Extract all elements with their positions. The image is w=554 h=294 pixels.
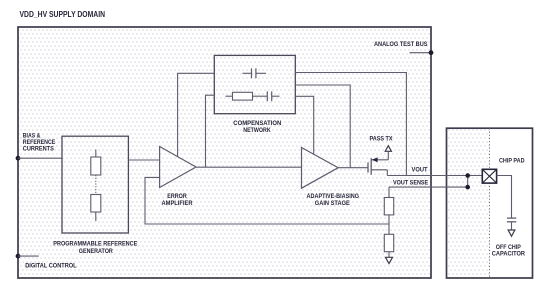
node VOUT junction [465, 173, 470, 178]
wire resistor bottom lead [95, 212, 97, 221]
svg-text:PROGRAMMABLE REFERENCE: PROGRAMMABLE REFERENCE [53, 241, 137, 248]
wire comp network left bottom to error amp output [206, 95, 215, 167]
op-amp error amplifier [160, 147, 196, 188]
svg-text:PASS TX: PASS TX [370, 136, 394, 143]
programmable reference generator box [62, 136, 128, 233]
capacitor C_offchip [507, 218, 516, 230]
wire error amp output to gain stage [196, 166, 302, 168]
wire reference to error amp input [128, 159, 159, 161]
node analog test bus junction [429, 50, 434, 55]
capacitor C1 (top) [243, 68, 267, 78]
svg-text:ADAPTIVE-BIASING: ADAPTIVE-BIASING [307, 193, 360, 200]
power VDD symbol [385, 146, 391, 152]
compensation network box [214, 55, 295, 113]
wire pad to off-chip capacitor [497, 176, 512, 219]
wire comp network right top to VOUT [295, 73, 406, 176]
main supply-domain box [18, 27, 431, 278]
svg-text:GAIN STAGE: GAIN STAGE [315, 200, 350, 207]
svg-text:CAPACITOR: CAPACITOR [492, 251, 526, 258]
wire gain stage output to gate [338, 167, 368, 169]
svg-text:VOUT: VOUT [412, 167, 428, 174]
wire resistor top lead [95, 150, 97, 158]
resistor R_ref1 [91, 157, 101, 175]
svg-text:CURRENTS: CURRENTS [23, 145, 54, 152]
wire divider middle [388, 215, 390, 234]
wire digital control stub [18, 255, 39, 257]
node bias junction on border [16, 156, 21, 161]
svg-text:ANALOG TEST BUS: ANALOG TEST BUS [374, 41, 428, 48]
resistor R_ref2 [91, 195, 101, 213]
wire bias to reference generator [18, 157, 62, 159]
wire sense divider top lead [388, 187, 390, 197]
chip pad symbol [482, 169, 496, 183]
transistor Q1 pass PMOS [368, 157, 388, 175]
ground symbol off-chip [508, 230, 515, 236]
node digital control junction [16, 254, 21, 259]
wire dotted link between resistors [95, 175, 97, 195]
svg-text:NETWORK: NETWORK [243, 127, 271, 134]
svg-text:DIGITAL CONTROL: DIGITAL CONTROL [25, 263, 77, 270]
wire comp network right bottom to gain stage [295, 96, 313, 154]
wire VOUT [387, 175, 482, 177]
wire divider bottom lead [388, 252, 390, 258]
svg-text:VOUT SENSE: VOUT SENSE [393, 180, 428, 187]
svg-text:AMPLIFIER: AMPLIFIER [162, 200, 194, 207]
on-chip / off-chip dotted divider [489, 128, 491, 278]
wire feedback to error amp lower input [145, 177, 389, 224]
wire sense link vertical [467, 176, 469, 188]
resistor Rz + capacitor C2 (bottom row) [226, 91, 280, 101]
resistor R_fb2 [384, 234, 393, 251]
node VOUT SENSE junction [465, 185, 470, 190]
svg-text:CHIP PAD: CHIP PAD [499, 157, 525, 164]
svg-text:GENERATOR: GENERATOR [79, 248, 114, 255]
chip pad box [447, 128, 533, 278]
wire source to VDD [387, 152, 389, 160]
svg-text:COMPENSATION: COMPENSATION [233, 120, 281, 127]
resistor R_fb1 [384, 198, 393, 215]
wire comp network left top to error amp [178, 73, 215, 156]
svg-text:VDD_HV SUPPLY DOMAIN: VDD_HV SUPPLY DOMAIN [20, 10, 106, 19]
op-amp adaptive-biasing gain stage [302, 148, 339, 189]
wire comp network right middle to gate [295, 85, 350, 168]
wire analog test bus stub [410, 52, 432, 54]
wire VOUT SENSE [389, 186, 468, 188]
ground symbol divider [386, 257, 393, 263]
